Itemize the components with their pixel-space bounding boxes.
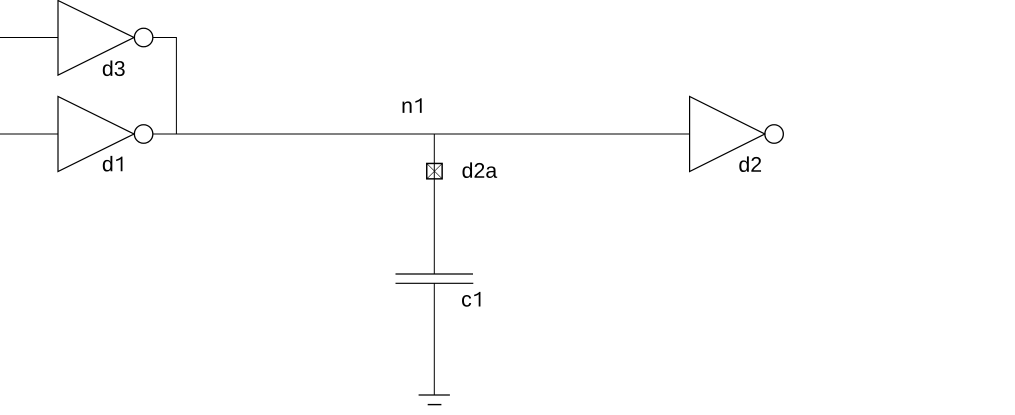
label c1 <box>462 292 480 307</box>
label d3 <box>103 60 125 76</box>
bubble of d2 <box>765 125 784 144</box>
inverter d3 <box>58 1 134 76</box>
wire net n1 horizontal <box>153 133 690 135</box>
capacitor c1 <box>396 274 474 283</box>
box d2a <box>427 163 442 178</box>
bubble of d3 <box>134 28 153 47</box>
wire input to d1 <box>0 133 58 135</box>
inverter d2 <box>690 97 765 172</box>
inverter d1 <box>58 97 134 172</box>
label d1 <box>103 156 123 172</box>
wire input to d3 <box>0 37 58 39</box>
node n1 <box>403 98 422 113</box>
ground <box>419 395 450 405</box>
wire capacitor to ground <box>433 283 435 395</box>
label d2 <box>739 156 761 172</box>
wire d3 output to junction <box>153 38 177 135</box>
bubble of d1 <box>134 125 153 144</box>
wire n1 down to capacitor <box>433 134 435 274</box>
label d2a <box>463 162 498 178</box>
